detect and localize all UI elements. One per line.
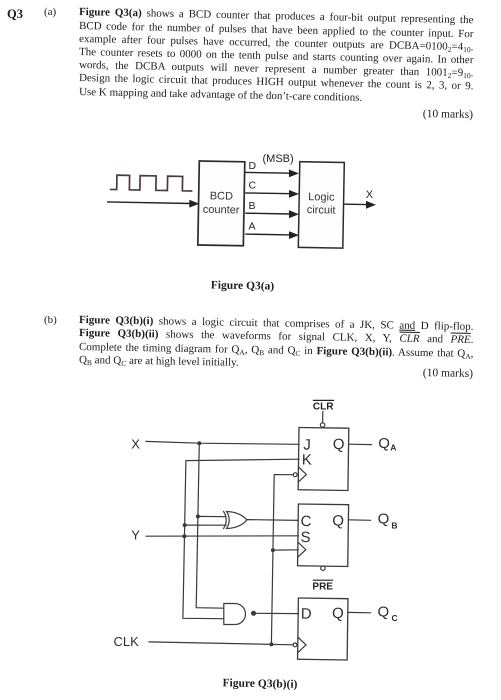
flip-flop U1 (JK) box [298, 428, 349, 491]
caption Figure Q3(a) [110, 277, 375, 294]
svg-text:CLK: CLK [114, 634, 140, 649]
output A wire [245, 231, 299, 239]
wire X tap to XOR top input [198, 515, 226, 517]
part label (b) [44, 314, 57, 326]
svg-text:X: X [131, 437, 140, 452]
wire XOR output to C [247, 519, 299, 522]
caption Figure Q3(b)(i) [180, 676, 340, 691]
wire X to J [146, 441, 299, 444]
U2 clock triangle [298, 543, 306, 557]
flip-flop U3 (D) box [298, 598, 348, 660]
Q output QA wire [349, 443, 372, 445]
svg-text:Y: Y [131, 528, 140, 543]
flip-flop U2 (SC) box [298, 504, 349, 566]
U1 clock bubble [293, 473, 297, 477]
wire CLK to U3 clock [149, 642, 293, 645]
U3 clock triangle [298, 638, 306, 652]
wire X vertical down to NAND [196, 443, 224, 608]
svg-text:Q: Q [332, 605, 344, 622]
paragraph (a) [79, 6, 474, 98]
NAND output bubble [252, 611, 256, 615]
question number Q3 [7, 7, 23, 22]
label QC [378, 603, 398, 623]
svg-text:A: A [390, 442, 396, 452]
svg-text:Q: Q [378, 603, 390, 620]
CLR bubble [320, 423, 324, 427]
PRE label with overline [312, 580, 333, 592]
wire Y to S [146, 535, 298, 537]
node X branch [197, 441, 201, 445]
wire NAND output to D [255, 612, 298, 614]
output D wire (MSB) [245, 170, 299, 178]
BCD counter block [198, 161, 245, 246]
marks (b) [77, 361, 473, 381]
Q output QC wire [348, 611, 371, 613]
U1 clock triangle [299, 467, 307, 481]
NAND gate G2 [224, 604, 246, 625]
U3 clock bubble [293, 643, 297, 647]
wire clock bus to U2 [273, 549, 298, 551]
svg-text:C: C [300, 513, 311, 530]
U2 PRE bubble [321, 566, 325, 570]
svg-text:CLR: CLR [313, 401, 334, 412]
node K-line to XOR tap [183, 523, 187, 527]
paragraph (b) [79, 314, 474, 368]
wire CLR to FF1 [322, 412, 324, 423]
svg-text:PRE: PRE [312, 581, 333, 592]
clock pulse train [110, 175, 193, 191]
Logic circuit block [298, 162, 344, 248]
node CLK junction [269, 642, 273, 646]
svg-text:K: K [302, 452, 312, 469]
svg-text:C: C [392, 613, 398, 623]
svg-text:S: S [300, 529, 310, 546]
output C wire [245, 190, 299, 198]
Q output QB wire [349, 519, 371, 522]
part label (a) [44, 6, 56, 18]
marks (a) [77, 102, 473, 122]
svg-text:Q: Q [333, 436, 345, 453]
svg-text:Q: Q [378, 511, 390, 528]
label QB [378, 511, 398, 531]
svg-text:D: D [301, 606, 312, 623]
CLR label with overline [313, 400, 334, 412]
node clock tap U2 [271, 548, 275, 552]
XOR gate G1 [224, 512, 247, 529]
input wire with arrow into BCD counter [107, 200, 199, 208]
svg-text:B: B [391, 520, 397, 530]
node Y junction [182, 534, 186, 538]
svg-text:Q: Q [332, 512, 344, 529]
node X to XOR tap [196, 514, 200, 518]
wire tap to XOR bottom input [185, 524, 226, 526]
wire K joint [183, 459, 299, 619]
clock bus vertical wire [271, 475, 293, 645]
output B wire [245, 210, 299, 218]
svg-text:Q: Q [378, 435, 390, 452]
label QA [378, 435, 396, 453]
output X wire [344, 201, 376, 209]
